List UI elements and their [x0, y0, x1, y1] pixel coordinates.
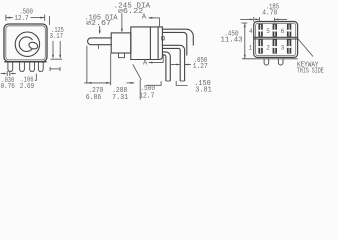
svg-text:2: 2: [266, 45, 270, 52]
svg-text:THIS SIDE: THIS SIDE: [297, 67, 324, 75]
svg-text:3.81: 3.81: [195, 87, 212, 95]
svg-text:12.7: 12.7: [14, 15, 28, 23]
svg-text:6.86: 6.86: [86, 94, 102, 102]
svg-text:3: 3: [281, 45, 285, 52]
svg-text:3.17: 3.17: [50, 33, 63, 41]
svg-text:7.31: 7.31: [112, 94, 128, 102]
svg-text:6: 6: [281, 28, 285, 35]
svg-text:5: 5: [266, 28, 270, 35]
svg-text:0.76: 0.76: [1, 83, 15, 91]
svg-text:⌀6.22: ⌀6.22: [118, 8, 144, 16]
svg-text:11.43: 11.43: [221, 36, 243, 44]
svg-text:1.27: 1.27: [193, 63, 208, 71]
svg-text:4.70: 4.70: [262, 9, 277, 17]
svg-text:⌀2.67: ⌀2.67: [86, 20, 111, 28]
svg-text:4: 4: [249, 28, 253, 35]
svg-text:2.69: 2.69: [20, 83, 34, 91]
svg-text:12.7: 12.7: [139, 93, 154, 101]
svg-text:1: 1: [249, 45, 253, 52]
